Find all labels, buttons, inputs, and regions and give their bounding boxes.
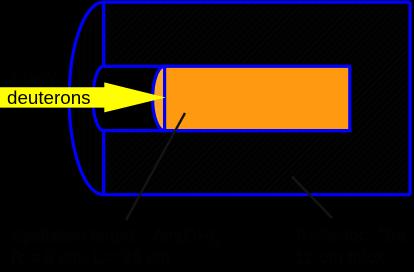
outer reflector outline (69, 2, 410, 195)
svg-text:Spallation target:: Spallation target: (11, 226, 139, 245)
svg-text:R = 8 cm, L = 36 cm: R = 8 cm, L = 36 cm (11, 248, 170, 267)
svg-text:12 cm thick: 12 cm thick (295, 248, 385, 267)
outer right line (409, 2, 412, 195)
svg-text:Am(OH): Am(OH) (153, 226, 215, 245)
outer left end-cap arc (69, 2, 103, 195)
pointer line to reflector label (292, 177, 332, 219)
svg-text:3: 3 (214, 240, 220, 252)
end-cap vertical hatching (65, 0, 107, 200)
deuteron beam arrow (0, 82, 166, 112)
outer bottom line (104, 193, 410, 196)
channel top line (104, 65, 350, 68)
svg-text:deuterons: deuterons (7, 87, 91, 108)
target cylinder body (165, 66, 350, 130)
reflector diagonal hatching (100, 0, 414, 200)
svg-text:9: 9 (378, 225, 384, 237)
svg-text:Reflector:: Reflector: (296, 226, 369, 245)
outer top line (104, 0, 410, 3)
outer chord lower segment (102, 131, 105, 195)
channel bottom line (104, 129, 350, 132)
svg-text:Be,: Be, (385, 226, 411, 245)
label: Spallation target: Am(OH)3 (11, 225, 411, 268)
beam channel outline (93, 66, 350, 130)
pointer line to spallation target label (126, 113, 185, 220)
target front end-cap (half ellipse) (153, 66, 177, 130)
channel left end-cap arc (93, 66, 104, 130)
outer chord upper segment (102, 2, 105, 66)
target cylinder border (165, 66, 350, 130)
svg-text:1 GeV: 1 GeV (9, 68, 58, 87)
